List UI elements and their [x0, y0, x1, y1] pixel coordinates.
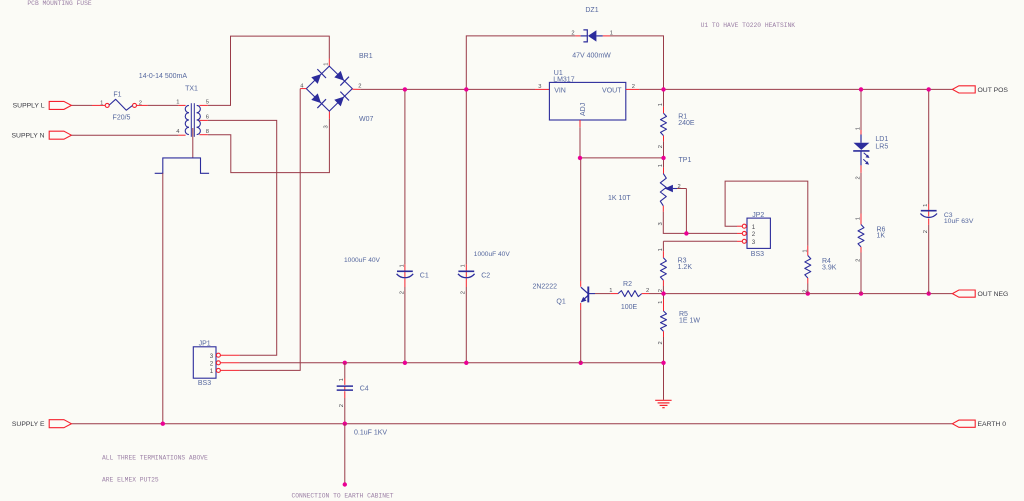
resistor R4 3.9K: [805, 256, 837, 279]
svg-text:SUPPLY N: SUPPLY N: [12, 133, 45, 140]
svg-text:1: 1: [323, 63, 329, 66]
svg-text:1: 1: [210, 368, 214, 375]
svg-text:U1 TO HAVE TO220 HEATSINK: U1 TO HAVE TO220 HEATSINK: [701, 22, 796, 29]
wire LED top: [860, 89, 862, 134]
svg-text:1K: 1K: [877, 232, 886, 239]
svg-text:1: 1: [339, 378, 345, 381]
svg-text:1: 1: [461, 264, 467, 267]
svg-text:BR1: BR1: [359, 53, 373, 60]
svg-text:3: 3: [323, 125, 329, 128]
junction POS rail: [403, 87, 931, 91]
text U1 TO HAVE TO220 HEATSINK: [701, 22, 796, 29]
port SUPPLY N: [12, 131, 72, 139]
svg-text:F1: F1: [113, 91, 121, 98]
svg-text:1K 10T: 1K 10T: [608, 195, 631, 202]
svg-text:3: 3: [210, 353, 214, 360]
pin labels R3: [658, 248, 664, 292]
wire R3 top: [663, 241, 742, 257]
pin labels R1: [658, 103, 664, 148]
pin labels DZ1: [571, 30, 613, 36]
pin labels C2: [461, 264, 467, 294]
svg-text:OUT POS: OUT POS: [978, 87, 1009, 94]
svg-text:1E 1W: 1E 1W: [679, 317, 700, 324]
svg-text:2: 2: [399, 291, 405, 294]
svg-text:BS3: BS3: [198, 380, 211, 387]
wire R4 bottom: [807, 278, 809, 294]
svg-text:TX1: TX1: [185, 85, 198, 92]
svg-text:CONNECTION TO EARTH CABINET: CONNECTION TO EARTH CABINET: [292, 493, 394, 500]
svg-text:1: 1: [856, 217, 862, 220]
pin labels U1: [538, 84, 635, 90]
capacitor C3: [920, 211, 973, 225]
svg-text:10uF 63V: 10uF 63V: [944, 218, 974, 225]
junction TP1 wiper: [684, 231, 688, 235]
svg-text:ADJ: ADJ: [580, 103, 587, 116]
port OUT NEG: [952, 290, 1008, 298]
svg-text:EARTH 0: EARTH 0: [978, 421, 1007, 428]
junction Q1 collector ADJ: [578, 156, 666, 160]
port SUPPLY E: [12, 420, 72, 428]
capacitor C4: [337, 386, 388, 437]
port EARTH 0: [952, 420, 1006, 428]
svg-text:1: 1: [176, 99, 179, 105]
junction 0V rail: [343, 361, 666, 365]
capacitor C2: [458, 251, 510, 279]
wire U1 ADJ: [579, 120, 581, 158]
svg-text:C2: C2: [481, 272, 490, 279]
svg-text:1: 1: [609, 288, 612, 294]
svg-text:240E: 240E: [678, 120, 695, 127]
svg-text:3.9K: 3.9K: [822, 265, 837, 272]
svg-text:2: 2: [358, 84, 361, 90]
wire 0V rail: [220, 362, 663, 364]
svg-text:LD1: LD1: [875, 136, 888, 143]
svg-text:PCB MOUNTING FUSE: PCB MOUNTING FUSE: [27, 0, 91, 7]
wire R1 bottom: [663, 136, 665, 158]
svg-text:C4: C4: [360, 386, 369, 393]
wire C4 top: [344, 363, 346, 385]
svg-text:ARE ELMEX PUT25: ARE ELMEX PUT25: [102, 477, 159, 484]
svg-text:1000uF 40V: 1000uF 40V: [474, 251, 511, 258]
wire earth rail: [71, 423, 952, 425]
svg-text:1: 1: [658, 164, 664, 167]
wire C2 branch: [465, 89, 467, 362]
labels BR1 W07: [359, 53, 374, 123]
wire TX1 centertap to shield: [192, 128, 194, 158]
svg-text:Q1: Q1: [556, 298, 565, 305]
bridge rectifier BR1: [306, 66, 352, 111]
wire LED to R6: [860, 165, 862, 224]
wire BR1 pin4 to JP1 pin1: [220, 89, 306, 371]
capacitor C1: [344, 257, 429, 280]
wire earth cabinet stub: [344, 424, 346, 485]
svg-text:OUT NEG: OUT NEG: [978, 291, 1009, 298]
wire BR1 pin2 to U1 VIN: [352, 88, 549, 90]
wire Q1 emitter: [580, 303, 582, 363]
port SUPPLY L: [13, 101, 72, 109]
pin labels F1: [100, 100, 142, 106]
svg-text:8: 8: [206, 129, 209, 135]
pin labels TP1: [658, 164, 681, 225]
wire R2 left: [595, 293, 618, 295]
svg-text:C1: C1: [420, 272, 429, 279]
svg-text:1: 1: [658, 301, 664, 304]
svg-text:JP2: JP2: [752, 212, 764, 219]
svg-text:LM317: LM317: [553, 76, 575, 83]
svg-text:1: 1: [658, 103, 664, 106]
connector JP1: [193, 340, 220, 387]
wire C3 top: [928, 89, 930, 210]
svg-text:TP1: TP1: [679, 157, 692, 164]
svg-text:1: 1: [752, 224, 756, 231]
wire R5 to ground: [663, 363, 665, 400]
label TP1: [679, 157, 692, 164]
wire SUPPLY N to TX1 pin4: [71, 134, 185, 136]
svg-text:47V 400mW: 47V 400mW: [572, 53, 611, 60]
wire C1 branch: [404, 89, 406, 362]
text CONNECTION TO EARTH CABINET: [292, 493, 394, 500]
text ALL THREE TERMINATIONS ABOVE: [102, 454, 208, 461]
svg-text:1: 1: [100, 100, 103, 106]
regulator U1 LM317: [549, 70, 625, 120]
wire R3 bottom: [662, 280, 664, 293]
svg-text:2: 2: [210, 361, 214, 368]
svg-text:6: 6: [206, 114, 209, 120]
svg-text:3: 3: [538, 84, 541, 90]
svg-text:5: 5: [206, 99, 209, 105]
svg-text:BS3: BS3: [751, 251, 764, 258]
resistor R6 1K: [858, 225, 886, 247]
wire TP1 top: [663, 158, 665, 174]
svg-text:JP1: JP1: [199, 340, 211, 347]
wire R2 right: [642, 293, 664, 295]
connector JP2: [742, 212, 770, 258]
wire R6 bottom: [860, 247, 862, 294]
wire TP1 pin3: [663, 206, 742, 234]
svg-text:VIN: VIN: [554, 88, 566, 95]
junction NEG rail: [661, 291, 931, 295]
pin labels LD1: [856, 127, 862, 180]
resistor R5 1E 1W: [661, 311, 701, 331]
svg-text:2: 2: [461, 291, 467, 294]
pin labels C4: [339, 378, 345, 407]
wire TP1 wiper: [677, 189, 686, 234]
svg-text:SUPPLY L: SUPPLY L: [13, 103, 45, 110]
wire U1 VOUT to OUT POS rail: [626, 88, 953, 90]
wire Q1 collector: [580, 158, 582, 287]
wire TX1 pin5 to BR1 pin1: [199, 36, 329, 105]
zener diode DZ1: [572, 7, 611, 60]
pin labels R2: [609, 288, 649, 294]
wire DZ1 right lead: [603, 36, 664, 90]
resistor R2 100E: [618, 281, 642, 311]
svg-text:1: 1: [399, 264, 405, 267]
svg-text:1: 1: [610, 30, 613, 36]
svg-text:DZ1: DZ1: [585, 7, 598, 14]
svg-text:R2: R2: [623, 281, 632, 288]
wire R5 top: [663, 294, 665, 311]
svg-text:F20/5: F20/5: [113, 115, 131, 122]
pin labels R6: [856, 217, 862, 262]
wire R1 top: [663, 89, 665, 113]
svg-text:3: 3: [752, 239, 756, 246]
port OUT POS: [952, 86, 1008, 94]
pin labels R5: [658, 301, 664, 345]
ground symbol: [655, 400, 671, 407]
svg-text:W07: W07: [359, 116, 374, 123]
svg-text:LR5: LR5: [875, 143, 888, 150]
junction earth rail: [161, 422, 347, 426]
wire SUPPLY L to F1: [71, 104, 105, 106]
potentiometer TP1 1K 10T: [608, 174, 677, 206]
svg-text:1000uF 40V: 1000uF 40V: [344, 257, 381, 264]
wire ADJ node: [580, 157, 664, 159]
text ARE ELMEX PUT25: [102, 477, 159, 484]
wire F1 to TX1 pin1: [137, 104, 186, 106]
resistor R1 240E: [661, 113, 695, 135]
label TX1 value: [139, 73, 188, 80]
transformer shield: [155, 158, 209, 173]
svg-text:100E: 100E: [621, 304, 638, 311]
wire shield to earth rail: [162, 173, 164, 423]
svg-text:2N2222: 2N2222: [532, 284, 557, 291]
pin labels TX1: [176, 99, 209, 135]
svg-text:0.1uF 1KV: 0.1uF 1KV: [354, 430, 387, 437]
svg-text:1: 1: [856, 127, 862, 130]
pin labels C3: [923, 204, 929, 234]
svg-text:1: 1: [923, 204, 929, 207]
transformer TX1: [185, 85, 200, 136]
svg-text:1.2K: 1.2K: [678, 264, 693, 271]
resistor R3 1.2K: [660, 257, 692, 280]
svg-text:2: 2: [571, 30, 574, 36]
wire JP2 pin1 to R4: [725, 181, 808, 255]
node earth cabinet: [343, 482, 347, 486]
svg-text:ALL THREE TERMINATIONS ABOVE: ALL THREE TERMINATIONS ABOVE: [102, 454, 208, 461]
svg-text:SUPPLY E: SUPPLY E: [12, 421, 45, 428]
pin labels BR1: [300, 63, 361, 129]
svg-text:1: 1: [658, 248, 664, 251]
svg-text:2: 2: [752, 231, 756, 238]
wire TX1 pin6 to JP1 pin3: [199, 120, 276, 355]
pin labels C1: [399, 264, 405, 294]
wire C4 bottom: [344, 391, 346, 424]
wire TX1 pin8 to BR1 pin3: [199, 111, 329, 173]
LED LD1 LR5: [853, 135, 888, 166]
wire DZ1 left lead: [466, 36, 580, 90]
svg-text:14-0-14 500mA: 14-0-14 500mA: [139, 73, 188, 80]
wire R5 bottom: [663, 331, 665, 363]
svg-text:VOUT: VOUT: [602, 88, 622, 95]
fuse F1: [105, 91, 136, 121]
pin labels R4: [802, 249, 808, 292]
wire OUT NEG rail: [664, 293, 953, 295]
transistor Q1 2N2222: [532, 284, 595, 306]
text PCB MOUNTING FUSE: [27, 0, 91, 7]
wire C3 bottom: [928, 219, 930, 294]
svg-text:1: 1: [802, 249, 808, 252]
